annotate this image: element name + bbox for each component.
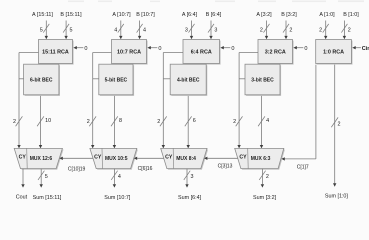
label C[1]7 bbox=[297, 164, 309, 170]
svg-text:2: 2 bbox=[348, 28, 351, 34]
svg-text:2: 2 bbox=[233, 119, 236, 125]
BEC block group 4: 3-bit BEC bbox=[245, 64, 281, 96]
svg-text:A [15:11]: A [15:11] bbox=[32, 12, 53, 18]
svg-text:5: 5 bbox=[45, 174, 48, 180]
svg-text:8: 8 bbox=[119, 118, 122, 124]
wire Sum output group 2 (4 bits) bbox=[111, 169, 121, 188]
wire BEC output to MUX group 1 (10 lines) bbox=[37, 96, 51, 148]
svg-text:5: 5 bbox=[70, 28, 73, 34]
svg-text:B [6:4]: B [6:4] bbox=[206, 12, 222, 18]
svg-text:6-bit BEC: 6-bit BEC bbox=[30, 77, 53, 83]
svg-text:C[3]13: C[3]13 bbox=[218, 164, 233, 170]
svg-text:Sum [15:11]: Sum [15:11] bbox=[33, 195, 62, 201]
svg-text:C[10]19: C[10]19 bbox=[68, 166, 86, 172]
label A input group 2 bbox=[112, 12, 131, 18]
wire Sum output group 1 (5 bits) bbox=[38, 169, 48, 188]
svg-text:4: 4 bbox=[114, 28, 117, 34]
svg-text:2: 2 bbox=[266, 174, 269, 180]
label B input group 1 bbox=[60, 12, 82, 18]
svg-text:3: 3 bbox=[214, 28, 217, 34]
BEC block group 1: 6-bit BEC bbox=[24, 64, 60, 96]
svg-text:MUX 8:4: MUX 8:4 bbox=[176, 156, 196, 162]
label B input group 5 bbox=[343, 12, 359, 18]
svg-text:B [10:7]: B [10:7] bbox=[136, 12, 155, 18]
wire Cout output bbox=[21, 169, 24, 188]
label B input group 4 bbox=[281, 12, 297, 18]
svg-text:Cin: Cin bbox=[362, 46, 369, 52]
svg-text:Cout: Cout bbox=[16, 195, 28, 201]
wire stub into BEC left group 3 bbox=[163, 78, 170, 80]
svg-text:Sum [1:0]: Sum [1:0] bbox=[325, 194, 349, 200]
wire B input group 5 (2 bits) bbox=[341, 21, 350, 40]
wire carry C[6]16 from MUX 8:4 to MUX 10:5 bbox=[134, 157, 164, 160]
wire RCA carry bundle to MUX group 1 (2 lines) bbox=[13, 53, 39, 149]
svg-text:CY: CY bbox=[165, 154, 173, 160]
svg-text:0: 0 bbox=[304, 46, 307, 52]
svg-text:6:4 RCA: 6:4 RCA bbox=[191, 50, 212, 56]
wire B input group 3 (3 bits) bbox=[208, 21, 217, 40]
svg-text:5-bit BEC: 5-bit BEC bbox=[105, 77, 128, 83]
svg-text:CY: CY bbox=[94, 154, 102, 160]
svg-text:3: 3 bbox=[185, 28, 188, 34]
wire BEC output to MUX group 3 (6 lines) bbox=[185, 96, 196, 148]
svg-text:4: 4 bbox=[143, 28, 146, 34]
wire RCA carry bundle to MUX group 2 (2 lines) bbox=[87, 53, 112, 149]
wire stub into BEC left group 1 bbox=[19, 78, 24, 80]
wire B input group 4 (2 bits) bbox=[283, 21, 292, 40]
label A input group 4 bbox=[256, 12, 272, 18]
svg-text:4-bit BEC: 4-bit BEC bbox=[177, 77, 200, 83]
svg-text:6: 6 bbox=[193, 118, 196, 124]
svg-text:MUX 6:3: MUX 6:3 bbox=[251, 156, 271, 162]
svg-text:Sum [6:4]: Sum [6:4] bbox=[178, 195, 202, 201]
svg-text:Sum [3:2]: Sum [3:2] bbox=[253, 195, 277, 201]
label Sum output group 2 bbox=[104, 195, 131, 201]
label Cout bbox=[16, 195, 28, 201]
label Sum [1:0] bbox=[325, 194, 349, 200]
svg-text:2: 2 bbox=[87, 119, 90, 125]
svg-text:0: 0 bbox=[231, 46, 234, 52]
wire stub into BEC left group 4 bbox=[239, 78, 245, 80]
svg-text:A [3:2]: A [3:2] bbox=[256, 12, 272, 18]
svg-text:3:2 RCA: 3:2 RCA bbox=[265, 50, 286, 56]
label Sum output group 4 bbox=[253, 195, 277, 201]
svg-text:10:7 RCA: 10:7 RCA bbox=[117, 50, 141, 56]
svg-text:C[1]7: C[1]7 bbox=[297, 164, 309, 170]
svg-text:4: 4 bbox=[266, 118, 269, 124]
label B input group 2 bbox=[136, 12, 155, 18]
faint cropped-text smudges along top edge bbox=[68, 0, 364, 2]
wire RCA carry bundle to MUX group 4 (2 lines) bbox=[233, 53, 258, 149]
wire carry C[3]13 from MUX 6:3 to MUX 8:4 bbox=[204, 157, 238, 160]
svg-text:A [6:4]: A [6:4] bbox=[182, 12, 198, 18]
svg-text:0: 0 bbox=[84, 46, 87, 52]
wire BEC output to MUX group 4 (4 lines) bbox=[258, 96, 269, 148]
label A input group 1 bbox=[32, 12, 53, 18]
RCA block group 5: 1:0 RCA bbox=[316, 40, 353, 65]
RCA block group 4: 3:2 RCA bbox=[258, 40, 294, 65]
svg-text:B [3:2]: B [3:2] bbox=[281, 12, 297, 18]
svg-text:C[6]16: C[6]16 bbox=[138, 166, 153, 172]
wire A input group 4 (2 bits) bbox=[260, 21, 270, 40]
svg-text:B [15:11]: B [15:11] bbox=[60, 12, 82, 18]
svg-text:B [1:0]: B [1:0] bbox=[343, 12, 359, 18]
RCA block group 3: 6:4 RCA bbox=[183, 40, 221, 65]
svg-text:15:11 RCA: 15:11 RCA bbox=[42, 50, 69, 56]
svg-text:A [1:0]: A [1:0] bbox=[319, 12, 335, 18]
wire RCA carry bundle to MUX group 3 (2 lines) bbox=[157, 53, 183, 149]
label A input group 5 bbox=[319, 12, 335, 18]
wire carry-in 0 into RCA group 1 bbox=[73, 46, 87, 52]
svg-text:2: 2 bbox=[289, 28, 292, 34]
RCA block group 1: 15:11 RCA bbox=[39, 40, 74, 65]
svg-text:2: 2 bbox=[260, 28, 263, 34]
wire Sum output group 3 (3 bits) bbox=[184, 169, 194, 188]
label Sum output group 1 bbox=[33, 195, 62, 201]
svg-text:4: 4 bbox=[118, 174, 121, 180]
wire BEC output to MUX group 2 (8 lines) bbox=[111, 96, 122, 148]
svg-text:5: 5 bbox=[40, 28, 43, 34]
wire A input group 1 (5 bits) bbox=[40, 21, 50, 40]
svg-text:3-bit BEC: 3-bit BEC bbox=[251, 77, 274, 83]
svg-text:0: 0 bbox=[158, 46, 161, 52]
label C[6]16 bbox=[138, 166, 153, 172]
MUX block group 4: CY / MUX 6:3 bbox=[235, 148, 285, 169]
wire A input group 3 (3 bits) bbox=[185, 21, 195, 40]
svg-text:3: 3 bbox=[191, 174, 194, 180]
label Sum output group 3 bbox=[178, 195, 202, 201]
wire carry C[10]19 from MUX 10:5 to MUX 12:6 bbox=[59, 157, 93, 160]
svg-text:A [10:7]: A [10:7] bbox=[112, 12, 131, 18]
svg-text:2: 2 bbox=[319, 28, 322, 34]
RCA block group 2: 10:7 RCA bbox=[112, 40, 148, 65]
wire Sum [1:0] output bbox=[331, 65, 340, 187]
MUX block group 3: CY / MUX 8:4 bbox=[161, 148, 208, 169]
wire B input group 1 (5 bits) bbox=[63, 21, 72, 40]
svg-text:1:0 RCA: 1:0 RCA bbox=[323, 50, 344, 56]
svg-text:10: 10 bbox=[45, 118, 51, 124]
wire A input group 2 (4 bits) bbox=[114, 21, 124, 40]
svg-text:MUX 10:5: MUX 10:5 bbox=[105, 156, 128, 162]
label C[10]19 bbox=[68, 166, 86, 172]
label A input group 3 bbox=[182, 12, 198, 18]
svg-text:2: 2 bbox=[338, 122, 341, 128]
MUX block group 2: CY / MUX 10:5 bbox=[90, 148, 138, 169]
svg-text:CY: CY bbox=[239, 154, 247, 160]
MUX block group 1: CY / MUX 12:6 bbox=[14, 148, 63, 169]
svg-text:CY: CY bbox=[19, 154, 27, 160]
wire carry-in 0 into RCA group 3 bbox=[220, 46, 234, 52]
wire carry-in 0 into RCA group 4 bbox=[293, 46, 307, 52]
svg-text:MUX 12:6: MUX 12:6 bbox=[30, 156, 53, 162]
BEC block group 2: 5-bit BEC bbox=[99, 64, 134, 96]
svg-text:Sum [10:7]: Sum [10:7] bbox=[104, 195, 131, 201]
wire Sum output group 4 (2 bits) bbox=[259, 169, 269, 188]
wire Cin into RCA group 5 bbox=[352, 46, 369, 52]
BEC block group 3: 4-bit BEC bbox=[170, 64, 207, 96]
wire carry C[1] from RCA group 5 to MUX 6:3 bbox=[281, 65, 316, 161]
svg-text:2: 2 bbox=[157, 119, 160, 125]
wire B input group 2 (4 bits) bbox=[137, 21, 146, 40]
wire stub into BEC left group 2 bbox=[93, 78, 99, 80]
svg-text:2: 2 bbox=[13, 119, 16, 125]
wire carry-in 0 into RCA group 2 bbox=[147, 46, 161, 52]
label C[3]13 bbox=[218, 164, 233, 170]
label B input group 3 bbox=[206, 12, 222, 18]
wire A input group 5 (2 bits) bbox=[319, 21, 329, 40]
